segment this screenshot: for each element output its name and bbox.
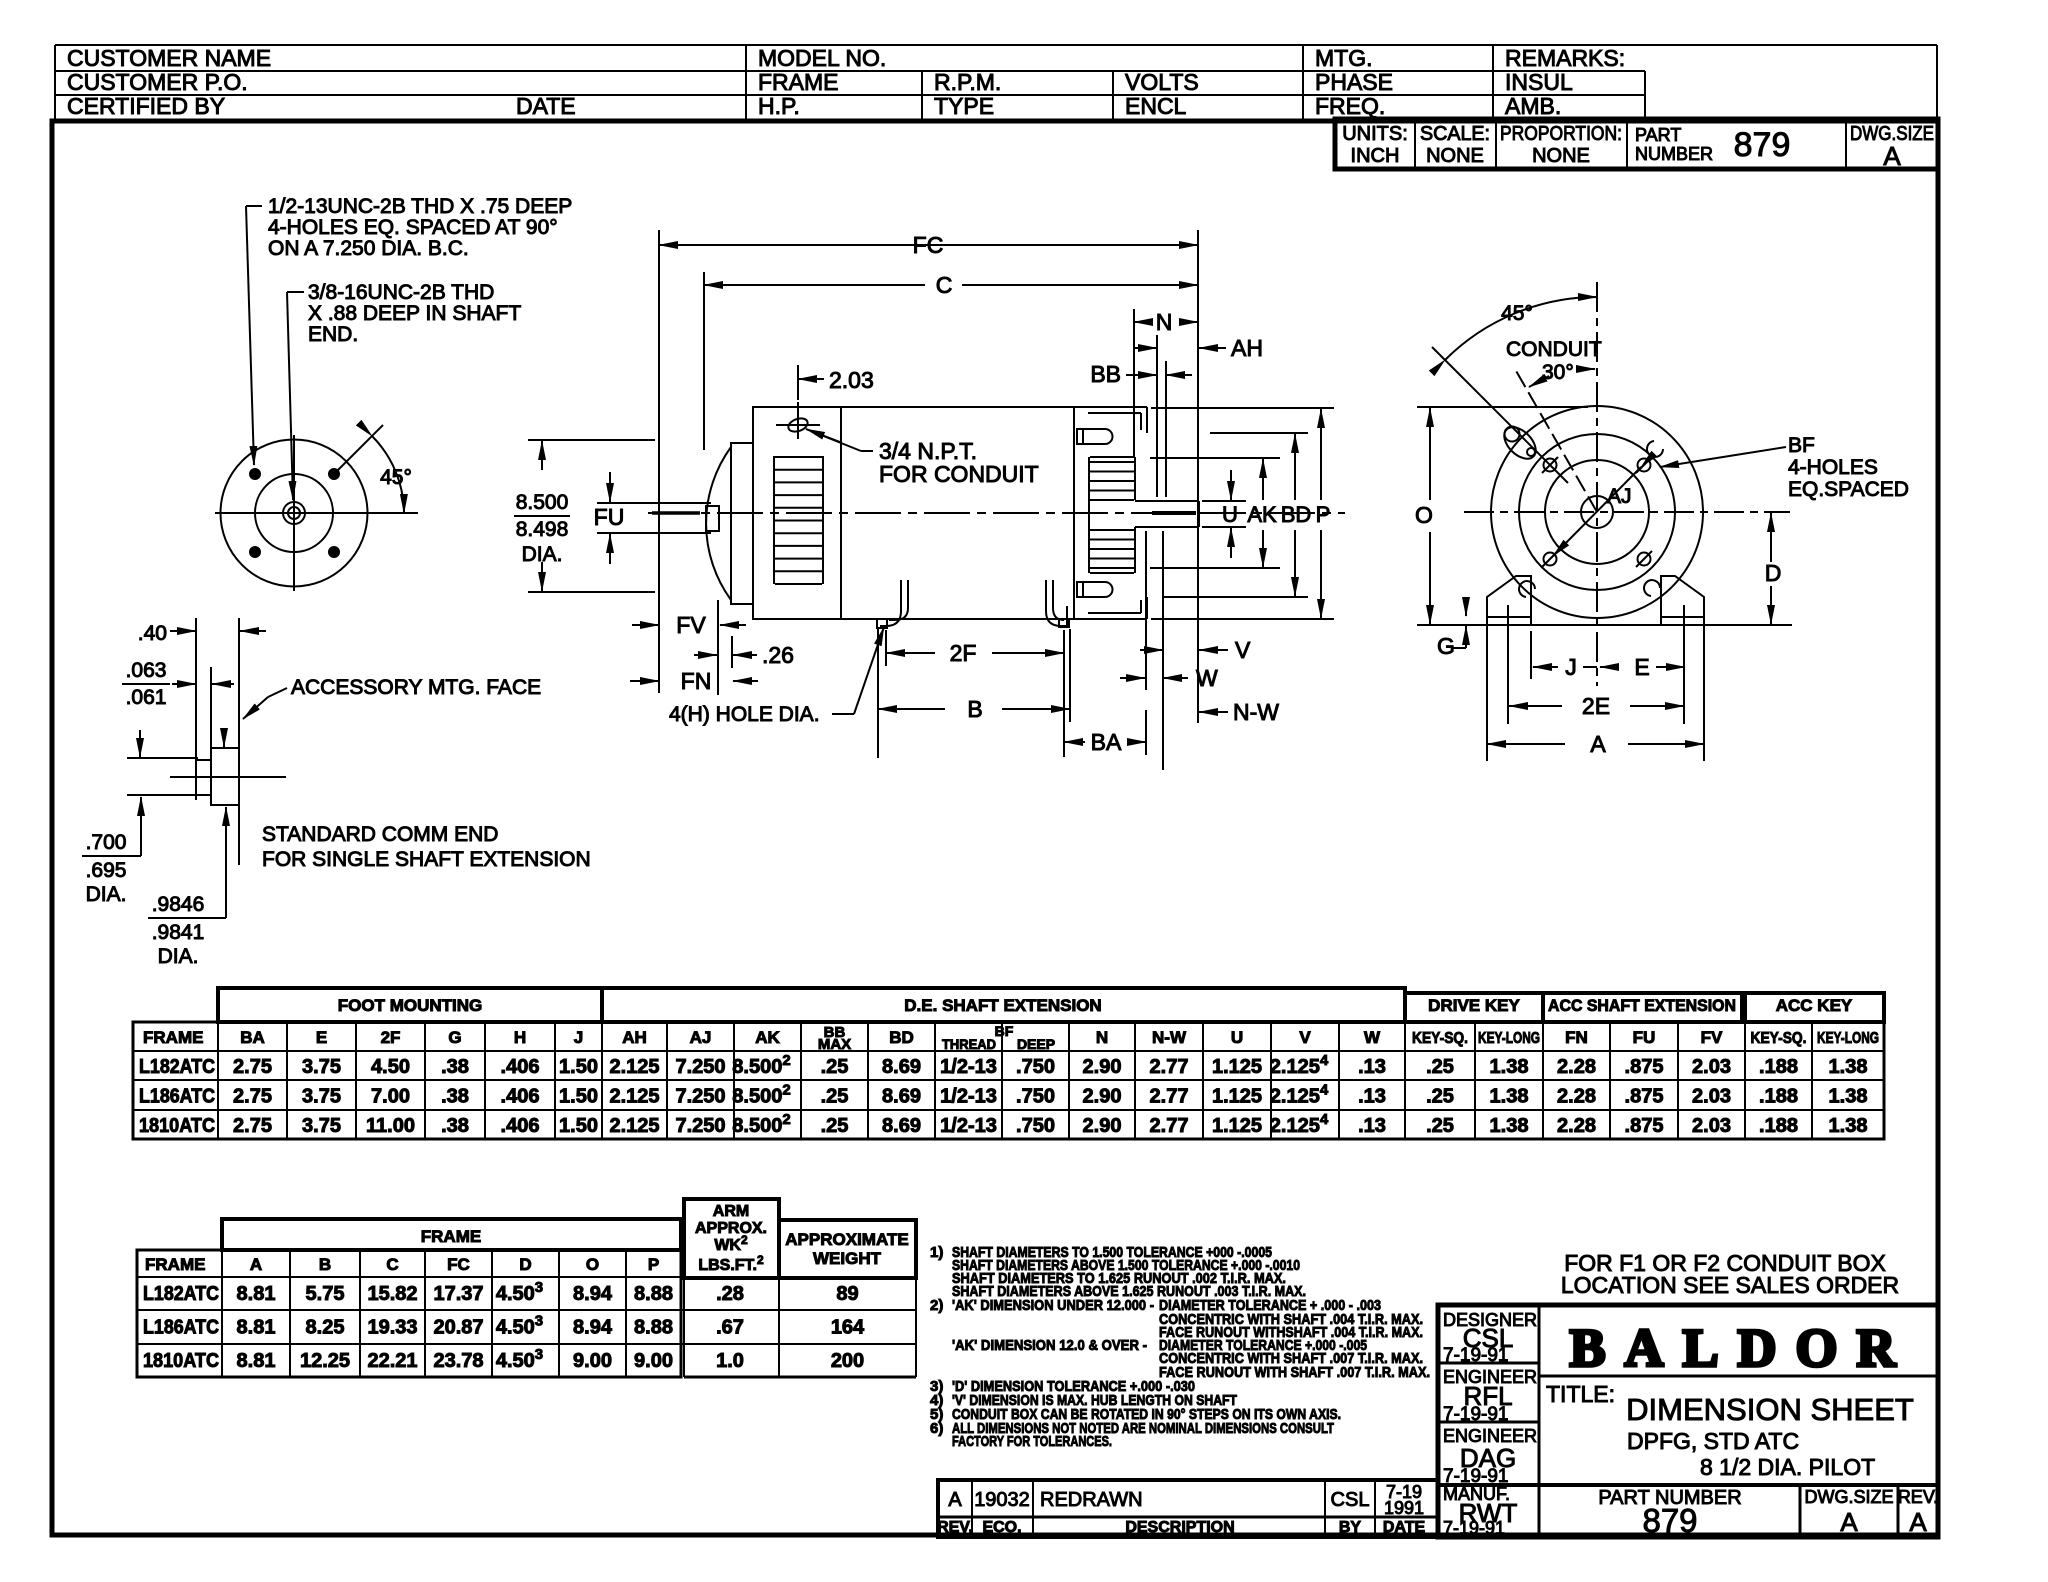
svg-text:7-19-91: 7-19-91 [1443, 1345, 1509, 1366]
svg-text:ARM: ARM [713, 1203, 749, 1220]
45 degree arc [1445, 297, 1597, 360]
svg-text:12.25: 12.25 [300, 1350, 350, 1372]
conduit hole [787, 416, 810, 434]
svg-text:C: C [936, 272, 953, 298]
svg-text:7.00: 7.00 [371, 1086, 410, 1108]
svg-text:N: N [1096, 1028, 1108, 1047]
svg-text:8.94: 8.94 [573, 1283, 613, 1305]
svg-text:164: 164 [831, 1317, 865, 1339]
svg-text:30°: 30° [1542, 361, 1574, 384]
svg-text:FRAME: FRAME [421, 1227, 481, 1246]
right foot hook [1046, 580, 1067, 626]
svg-text:BF: BF [1788, 434, 1815, 457]
svg-text:H.P.: H.P. [758, 93, 800, 119]
motor centerline [648, 512, 1345, 514]
svg-text:5.75: 5.75 [306, 1283, 345, 1305]
ARM WK2 box [684, 1199, 779, 1278]
leader to shaft center [287, 291, 304, 293]
BALDOR logo [1539, 1375, 1938, 1378]
comm end ext lines [127, 757, 198, 759]
svg-text:O: O [1415, 502, 1433, 528]
APPROXIMATE WEIGHT box [779, 1220, 916, 1278]
svg-text:B: B [319, 1255, 331, 1274]
svg-text:.13: .13 [1358, 1115, 1386, 1137]
svg-text:2.77: 2.77 [1150, 1115, 1189, 1137]
conduit leader [806, 429, 861, 451]
svg-text:1.38: 1.38 [1490, 1056, 1529, 1078]
svg-text:1.125: 1.125 [1212, 1115, 1262, 1137]
svg-text:FACE RUNOUT WITH SHAFT .007 T.: FACE RUNOUT WITH SHAFT .007 T.I.R. MAX. [1159, 1364, 1430, 1381]
svg-text:E: E [316, 1028, 327, 1047]
motor body outline [753, 407, 1074, 619]
svg-text:9.00: 9.00 [634, 1350, 673, 1372]
svg-text:2E: 2E [1582, 693, 1610, 719]
comm end bell arc [706, 447, 731, 600]
svg-text:8.94: 8.94 [573, 1317, 613, 1339]
svg-text:4(H) HOLE DIA.: 4(H) HOLE DIA. [669, 703, 820, 726]
svg-text:89: 89 [836, 1283, 858, 1305]
dim FN [630, 680, 659, 682]
stub shaft end extension line [658, 230, 660, 693]
svg-text:1.38: 1.38 [1829, 1056, 1868, 1078]
svg-text:.700: .700 [86, 831, 127, 854]
ext lines small x=718 x=732 [717, 600, 719, 695]
svg-text:ACCESSORY MTG. FACE: ACCESSORY MTG. FACE [291, 676, 541, 699]
table1 group header DE SHAFT EXTENSION [602, 988, 1405, 1022]
dim A [1486, 625, 1488, 761]
svg-text:1): 1) [930, 1244, 943, 1261]
svg-text:APPROXIMATE: APPROXIMATE [785, 1230, 908, 1249]
svg-text:FC: FC [447, 1255, 470, 1274]
svg-text:8.69: 8.69 [882, 1115, 921, 1137]
dim BA [1064, 741, 1085, 743]
svg-text:N-W: N-W [1152, 1028, 1187, 1047]
svg-text:REMARKS:: REMARKS: [1505, 45, 1625, 71]
svg-text:BY: BY [1339, 1519, 1362, 1536]
svg-text:.26: .26 [762, 642, 794, 668]
left foot hook [880, 580, 901, 626]
ground line [1417, 624, 1792, 626]
svg-text:KEY-LONG: KEY-LONG [1817, 1030, 1879, 1047]
svg-text:.25: .25 [1426, 1086, 1454, 1108]
45 degree arc with arrows [372, 436, 404, 513]
svg-text:N: N [1156, 309, 1173, 335]
svg-text:.25: .25 [1426, 1056, 1454, 1078]
svg-text:3.75: 3.75 [302, 1115, 341, 1137]
dim V [1140, 649, 1163, 651]
svg-text:CONDUIT: CONDUIT [1506, 338, 1602, 361]
stub shaft thick center mark [652, 511, 700, 515]
svg-text:FRAME: FRAME [145, 1255, 205, 1274]
dim .700/.695 arrows [139, 730, 141, 757]
svg-text:1.38: 1.38 [1490, 1115, 1529, 1137]
dim E [1600, 666, 1612, 668]
dim W [1120, 677, 1145, 679]
svg-text:LOCATION SEE SALES ORDER: LOCATION SEE SALES ORDER [1561, 1272, 1899, 1298]
dim AH [1135, 347, 1157, 349]
U AK BD P extension lines [1151, 407, 1334, 409]
svg-text:DEEP: DEEP [1017, 1036, 1055, 1052]
svg-text:STANDARD COMM END: STANDARD COMM END [262, 823, 498, 846]
foot bolt centerlines [1507, 605, 1509, 724]
svg-text:2.75: 2.75 [233, 1056, 272, 1078]
svg-text:8.5002: 8.5002 [732, 1052, 790, 1078]
svg-text:FOR SINGLE SHAFT EXTENSION: FOR SINGLE SHAFT EXTENSION [262, 848, 591, 871]
svg-text:AK: AK [1247, 502, 1277, 527]
svg-text:45°: 45° [380, 466, 412, 489]
table2 body [137, 1250, 681, 1377]
svg-text:CERTIFIED BY: CERTIFIED BY [67, 93, 225, 119]
svg-text:WEIGHT: WEIGHT [813, 1249, 882, 1268]
svg-text:B: B [967, 696, 982, 722]
svg-text:APPROX.: APPROX. [695, 1220, 767, 1237]
svg-text:PHASE: PHASE [1315, 69, 1393, 95]
svg-text:ACC SHAFT EXTENSION: ACC SHAFT EXTENSION [1548, 996, 1736, 1015]
flange bolt holes [249, 468, 261, 480]
svg-text:U: U [1222, 502, 1238, 527]
svg-text:23.78: 23.78 [433, 1350, 483, 1372]
svg-text:1.38: 1.38 [1490, 1086, 1529, 1108]
svg-text:H: H [514, 1028, 526, 1047]
right view shaft circle [1581, 496, 1613, 528]
svg-text:REV.: REV. [1898, 1487, 1938, 1507]
svg-text:J: J [574, 1028, 583, 1047]
table1 group header FOOT MOUNTING [218, 988, 602, 1022]
svg-text:ECO.: ECO. [982, 1519, 1021, 1536]
svg-text:BALDOR: BALDOR [1569, 1318, 1914, 1378]
svg-text:17.37: 17.37 [433, 1283, 483, 1305]
dim BD [1294, 434, 1296, 500]
svg-text:.188: .188 [1759, 1086, 1798, 1108]
svg-text:ON A 7.250 DIA. B.C.: ON A 7.250 DIA. B.C. [268, 237, 469, 260]
svg-text:7-19-91: 7-19-91 [1443, 1518, 1505, 1538]
comm end centerline [170, 776, 286, 778]
right view feet [1487, 576, 1531, 625]
dim D [1770, 513, 1772, 562]
svg-text:.750: .750 [1016, 1086, 1055, 1108]
svg-text:200: 200 [831, 1350, 864, 1372]
svg-text:7.250: 7.250 [675, 1086, 725, 1108]
dim 8.500/8.498 [528, 439, 655, 441]
accessory face vertical lines [195, 618, 197, 800]
svg-text:.38: .38 [441, 1086, 469, 1108]
dim U [1230, 470, 1232, 500]
flange view outer circle [221, 440, 368, 587]
svg-text:KEY-SQ.: KEY-SQ. [1751, 1030, 1807, 1047]
svg-text:DIMENSION SHEET: DIMENSION SHEET [1626, 1392, 1914, 1427]
svg-text:AH: AH [622, 1028, 647, 1047]
dim .26 [694, 654, 717, 656]
svg-text:.9841: .9841 [152, 921, 205, 944]
svg-text:END.: END. [308, 323, 358, 346]
table1 group header ACC KEY [1745, 993, 1884, 1022]
svg-text:MODEL NO.: MODEL NO. [758, 45, 886, 71]
svg-text:G: G [1437, 633, 1455, 659]
svg-text:V: V [1235, 637, 1251, 663]
svg-text:W: W [1196, 665, 1218, 691]
svg-text:FN: FN [681, 668, 712, 694]
svg-text:BD: BD [1281, 502, 1312, 527]
svg-text:879: 879 [1734, 126, 1791, 164]
svg-text:7.250: 7.250 [675, 1056, 725, 1078]
svg-text:UNITS:: UNITS: [1342, 123, 1408, 145]
svg-text:FV: FV [1701, 1028, 1723, 1047]
bottom stud [1077, 582, 1083, 597]
comm end shaft blocks [211, 748, 239, 805]
svg-text:.695: .695 [86, 859, 127, 882]
svg-text:NONE: NONE [1426, 145, 1484, 167]
title block outer box [1438, 1305, 1938, 1537]
svg-text:2.28: 2.28 [1557, 1056, 1596, 1078]
svg-text:.750: .750 [1016, 1056, 1055, 1078]
svg-text:8.25: 8.25 [306, 1317, 345, 1339]
svg-text:.25: .25 [821, 1056, 849, 1078]
svg-text:.061: .061 [126, 686, 167, 709]
svg-text:.875: .875 [1625, 1056, 1664, 1078]
svg-text:VOLTS: VOLTS [1125, 69, 1199, 95]
svg-text:TITLE:: TITLE: [1546, 1381, 1615, 1407]
svg-text:3.75: 3.75 [302, 1056, 341, 1078]
svg-text:KEY-SQ.: KEY-SQ. [1412, 1030, 1468, 1047]
right end extension line x=1197 [1197, 230, 1199, 723]
svg-text:1.125: 1.125 [1212, 1086, 1262, 1108]
svg-text:EQ.SPACED: EQ.SPACED [1788, 478, 1909, 501]
svg-text:REDRAWN: REDRAWN [1040, 1489, 1143, 1511]
svg-text:.188: .188 [1759, 1056, 1798, 1078]
dim .9846/.9841 arrows [223, 728, 225, 747]
svg-text:2F: 2F [950, 640, 977, 666]
svg-text:1.50: 1.50 [559, 1115, 598, 1137]
svg-text:2.28: 2.28 [1557, 1086, 1596, 1108]
svg-text:KEY-LONG: KEY-LONG [1478, 1030, 1540, 1047]
table1 group header ACC SHAFT EXTENSION [1543, 993, 1742, 1022]
dim 2F [885, 630, 887, 666]
designer cell [1438, 1362, 1539, 1365]
svg-text:.13: .13 [1358, 1056, 1386, 1078]
svg-text:L186ATC: L186ATC [139, 1086, 215, 1108]
left vent slots [773, 456, 775, 584]
svg-text:4.50: 4.50 [371, 1056, 410, 1078]
flange hub circles [283, 502, 305, 524]
dim N-W [1199, 711, 1228, 713]
right view bolt holes BF [1544, 459, 1557, 472]
svg-text:CUSTOMER NAME: CUSTOMER NAME [67, 45, 271, 71]
dim N [1134, 321, 1146, 323]
svg-text:22.21: 22.21 [367, 1350, 417, 1372]
svg-text:.875: .875 [1625, 1115, 1664, 1137]
svg-text:D.E. SHAFT EXTENSION: D.E. SHAFT EXTENSION [904, 996, 1101, 1015]
svg-text:A: A [1590, 731, 1606, 757]
svg-text:INSUL: INSUL [1505, 69, 1573, 95]
accessory shaft center mark [1152, 511, 1196, 515]
svg-text:1.38: 1.38 [1829, 1115, 1868, 1137]
svg-text:.406: .406 [501, 1115, 540, 1137]
svg-text:FV: FV [676, 612, 706, 638]
BF leader [1660, 447, 1786, 467]
body internal divider [840, 407, 842, 619]
header table [55, 44, 1937, 46]
svg-text:1.38: 1.38 [1829, 1086, 1868, 1108]
svg-text:.25: .25 [821, 1086, 849, 1108]
eyebolt [1498, 421, 1541, 464]
svg-text:2.77: 2.77 [1150, 1086, 1189, 1108]
svg-text:DIA.: DIA. [522, 543, 563, 566]
svg-text:2.03: 2.03 [829, 367, 874, 393]
svg-text:X .88 DEEP IN SHAFT: X .88 DEEP IN SHAFT [308, 302, 521, 325]
svg-text:7.250: 7.250 [675, 1115, 725, 1137]
svg-text:DATE: DATE [1383, 1519, 1426, 1536]
right view pilot circle [1545, 460, 1649, 564]
svg-text:1/2-13: 1/2-13 [940, 1056, 997, 1078]
svg-text:1.125: 1.125 [1212, 1056, 1262, 1078]
dim FV [632, 624, 659, 626]
flange crosshair [215, 512, 418, 514]
clamp hooks [1647, 441, 1663, 457]
svg-text:A: A [1883, 141, 1901, 171]
svg-text:2.90: 2.90 [1083, 1086, 1122, 1108]
svg-text:11.00: 11.00 [366, 1115, 415, 1137]
svg-text:2.125: 2.125 [609, 1115, 659, 1137]
svg-text:AH: AH [1231, 335, 1263, 361]
svg-text:DIA.: DIA. [86, 883, 127, 906]
accessory gear teeth [1088, 457, 1090, 573]
svg-text:MTG.: MTG. [1315, 45, 1373, 71]
svg-text:1/2-13UNC-2B THD X .75 DEEP: 1/2-13UNC-2B THD X .75 DEEP [268, 195, 572, 218]
svg-text:L182ATC: L182ATC [139, 1056, 215, 1078]
svg-text:PROPORTION:: PROPORTION: [1500, 123, 1622, 145]
svg-text:CSL: CSL [1331, 1489, 1370, 1511]
svg-text:DIA.: DIA. [158, 945, 199, 968]
svg-text:U: U [1231, 1028, 1243, 1047]
svg-text:SCALE:: SCALE: [1420, 123, 1490, 145]
svg-text:AMB.: AMB. [1505, 93, 1561, 119]
svg-text:NONE: NONE [1532, 145, 1590, 167]
dim FU [609, 472, 611, 502]
svg-text:2.77: 2.77 [1150, 1056, 1189, 1078]
right view outer circle [1491, 406, 1703, 618]
dim G [1465, 597, 1467, 616]
svg-text:1.50: 1.50 [559, 1086, 598, 1108]
svg-text:.9846: .9846 [152, 893, 205, 916]
dim C [704, 284, 925, 286]
svg-text:19032: 19032 [974, 1489, 1030, 1511]
svg-text:A: A [250, 1255, 262, 1274]
svg-text:1/2-13: 1/2-13 [940, 1086, 997, 1108]
svg-text:CUSTOMER P.O.: CUSTOMER P.O. [67, 69, 248, 95]
svg-text:.25: .25 [1426, 1115, 1454, 1137]
svg-text:7-19-91: 7-19-91 [1443, 1404, 1509, 1425]
svg-text:8.81: 8.81 [237, 1283, 276, 1305]
svg-text:THREAD: THREAD [942, 1036, 996, 1052]
svg-text:1.0: 1.0 [716, 1350, 744, 1372]
svg-text:ENCL: ENCL [1125, 93, 1187, 119]
svg-text:2): 2) [930, 1297, 943, 1314]
dim B [877, 629, 879, 758]
svg-text:D: D [1765, 560, 1782, 586]
svg-text:NUMBER: NUMBER [1635, 144, 1713, 164]
table1 group header DRIVE KEY [1405, 993, 1543, 1022]
svg-text:FU: FU [594, 504, 625, 530]
dim O [1417, 406, 1588, 408]
svg-text:N-W: N-W [1233, 699, 1279, 725]
svg-text:'AK' DIMENSION UNDER 12.000 -: 'AK' DIMENSION UNDER 12.000 - [952, 1297, 1154, 1314]
leader to bolt hole [246, 205, 262, 207]
svg-text:G: G [448, 1028, 461, 1047]
top stud [1077, 429, 1083, 444]
svg-text:BA: BA [1091, 729, 1122, 755]
svg-text:BF: BF [995, 1023, 1014, 1039]
svg-text:PART: PART [1635, 125, 1681, 145]
svg-text:DESCRIPTION: DESCRIPTION [1125, 1519, 1234, 1536]
svg-text:8.88: 8.88 [634, 1283, 673, 1305]
svg-text:FREQ.: FREQ. [1315, 93, 1385, 119]
svg-text:FN: FN [1565, 1028, 1588, 1047]
svg-text:DRIVE KEY: DRIVE KEY [1428, 996, 1520, 1015]
svg-text:8.500: 8.500 [516, 491, 569, 514]
svg-text:8.88: 8.88 [634, 1317, 673, 1339]
30 degree dashed line [1515, 369, 1597, 512]
svg-text:FRAME: FRAME [143, 1028, 203, 1047]
svg-text:3.75: 3.75 [302, 1086, 341, 1108]
svg-text:.750: .750 [1016, 1115, 1055, 1137]
svg-text:1810ATC: 1810ATC [143, 1350, 219, 1372]
stub shaft keyway [706, 506, 719, 531]
flange pilot circle [255, 474, 333, 552]
svg-text:FRAME: FRAME [758, 69, 839, 95]
svg-text:.406: .406 [501, 1086, 540, 1108]
svg-text:'AK' DIMENSION 12.0 & OVER -: 'AK' DIMENSION 12.0 & OVER - [952, 1337, 1147, 1354]
svg-text:O: O [586, 1255, 599, 1274]
svg-text:C: C [386, 1255, 398, 1274]
svg-text:2.03: 2.03 [1692, 1115, 1731, 1137]
svg-text:P: P [1316, 502, 1331, 527]
svg-text:8.5002: 8.5002 [732, 1111, 790, 1137]
svg-text:A: A [1840, 1507, 1858, 1537]
svg-text:FU: FU [1633, 1028, 1656, 1047]
svg-text:D: D [519, 1255, 531, 1274]
svg-text:8.81: 8.81 [237, 1317, 276, 1339]
dim FC [659, 244, 950, 246]
part number cell [1799, 1485, 1802, 1537]
svg-text:FACTORY FOR TOLERANCES.: FACTORY FOR TOLERANCES. [952, 1433, 1112, 1450]
svg-text:.875: .875 [1625, 1086, 1664, 1108]
svg-text:879: 879 [1642, 1502, 1697, 1539]
svg-text:A: A [1909, 1507, 1927, 1537]
45 degree line [337, 425, 383, 471]
table2 group header FRAME [222, 1219, 681, 1250]
svg-text:FC: FC [913, 232, 944, 258]
svg-text:.38: .38 [441, 1056, 469, 1078]
svg-text:2.90: 2.90 [1083, 1056, 1122, 1078]
svg-text:BB: BB [1090, 361, 1121, 387]
svg-text:2.75: 2.75 [233, 1086, 272, 1108]
svg-text:15.82: 15.82 [367, 1283, 417, 1305]
front mounting plate [731, 443, 753, 604]
svg-text:1991: 1991 [1384, 1498, 1424, 1518]
svg-text:LBS.FT.2: LBS.FT.2 [698, 1253, 764, 1274]
svg-text:DATE: DATE [516, 93, 576, 119]
svg-text:.406: .406 [501, 1056, 540, 1078]
svg-text:.063: .063 [126, 659, 167, 682]
svg-text:8 1/2 DIA. PILOT: 8 1/2 DIA. PILOT [1700, 1454, 1875, 1480]
C left extension line [703, 272, 705, 450]
svg-text:1810ATC: 1810ATC [139, 1115, 215, 1137]
table1 body [133, 1022, 1884, 1139]
svg-text:8.498: 8.498 [516, 518, 569, 541]
svg-text:3/8-16UNC-2B THD: 3/8-16UNC-2B THD [308, 281, 494, 304]
svg-text:BA: BA [240, 1028, 265, 1047]
svg-text:BD: BD [889, 1028, 914, 1047]
